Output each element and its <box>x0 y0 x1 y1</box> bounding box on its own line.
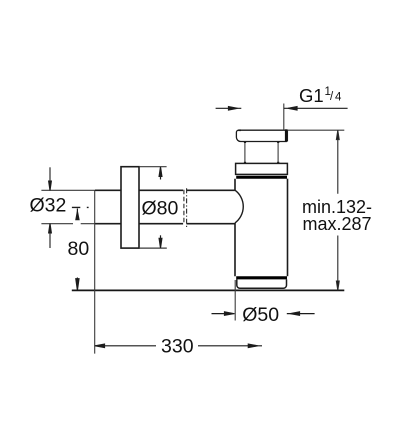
top cap right thick edge <box>285 129 287 141</box>
flange bottom edge extension <box>139 247 167 249</box>
min-max dimension line <box>336 130 339 290</box>
svg-text:4: 4 <box>335 92 342 104</box>
cap top-left corner nub <box>238 129 241 131</box>
inlet bulge arc <box>235 190 243 223</box>
svg-text:330: 330 <box>161 335 194 357</box>
svg-text:80: 80 <box>68 238 90 260</box>
svg-text:G1: G1 <box>299 85 324 106</box>
Ø50 right arrow <box>287 312 315 315</box>
bottom cap <box>237 279 287 288</box>
wall flange rosette <box>121 167 139 248</box>
wall pipe left end <box>94 190 96 223</box>
Ø32 extension line bottom <box>41 223 95 225</box>
Ø32 bottom arrow <box>49 223 52 248</box>
body top thick band <box>236 176 287 179</box>
wall pipe top edge <box>95 189 235 191</box>
G1 right arrow <box>284 107 348 110</box>
hidden dashed line <box>183 190 185 225</box>
shelf base line <box>72 289 345 291</box>
330 extension line <box>94 224 96 354</box>
threaded collar right <box>277 142 279 164</box>
330 dimension line left <box>95 344 156 347</box>
wall pipe bottom edge <box>95 223 235 225</box>
330 dimension line right <box>198 344 262 347</box>
body bottom thick band <box>236 276 287 279</box>
wall centerline dash-dot <box>186 188 188 228</box>
G1 left arrow <box>216 107 242 110</box>
pipe centerline dash <box>72 206 89 208</box>
Ø50 left arrow <box>212 312 235 315</box>
80 dim bottom arrow <box>76 278 79 291</box>
G1 extension line <box>283 104 285 131</box>
Ø50 left extension <box>234 280 236 321</box>
80 dim top arrow <box>76 209 79 220</box>
top cap nut <box>236 130 287 141</box>
threaded collar left <box>244 142 246 164</box>
svg-text:max.287: max.287 <box>303 214 372 234</box>
trap body left edge <box>234 179 236 277</box>
min-max top extension <box>288 129 345 131</box>
upper flange2 <box>236 163 288 174</box>
svg-text:Ø50: Ø50 <box>242 304 279 326</box>
Ø80 top arrow <box>159 167 162 180</box>
svg-text:Ø80: Ø80 <box>142 198 179 220</box>
collar corner nubs <box>244 141 279 163</box>
flange top edge extension <box>139 166 167 168</box>
Ø32 extension line top <box>41 189 95 191</box>
Ø80 bottom arrow <box>159 235 162 248</box>
svg-text:Ø32: Ø32 <box>30 195 67 217</box>
Ø32 top arrow <box>49 167 52 190</box>
trap body right edge <box>287 179 289 277</box>
